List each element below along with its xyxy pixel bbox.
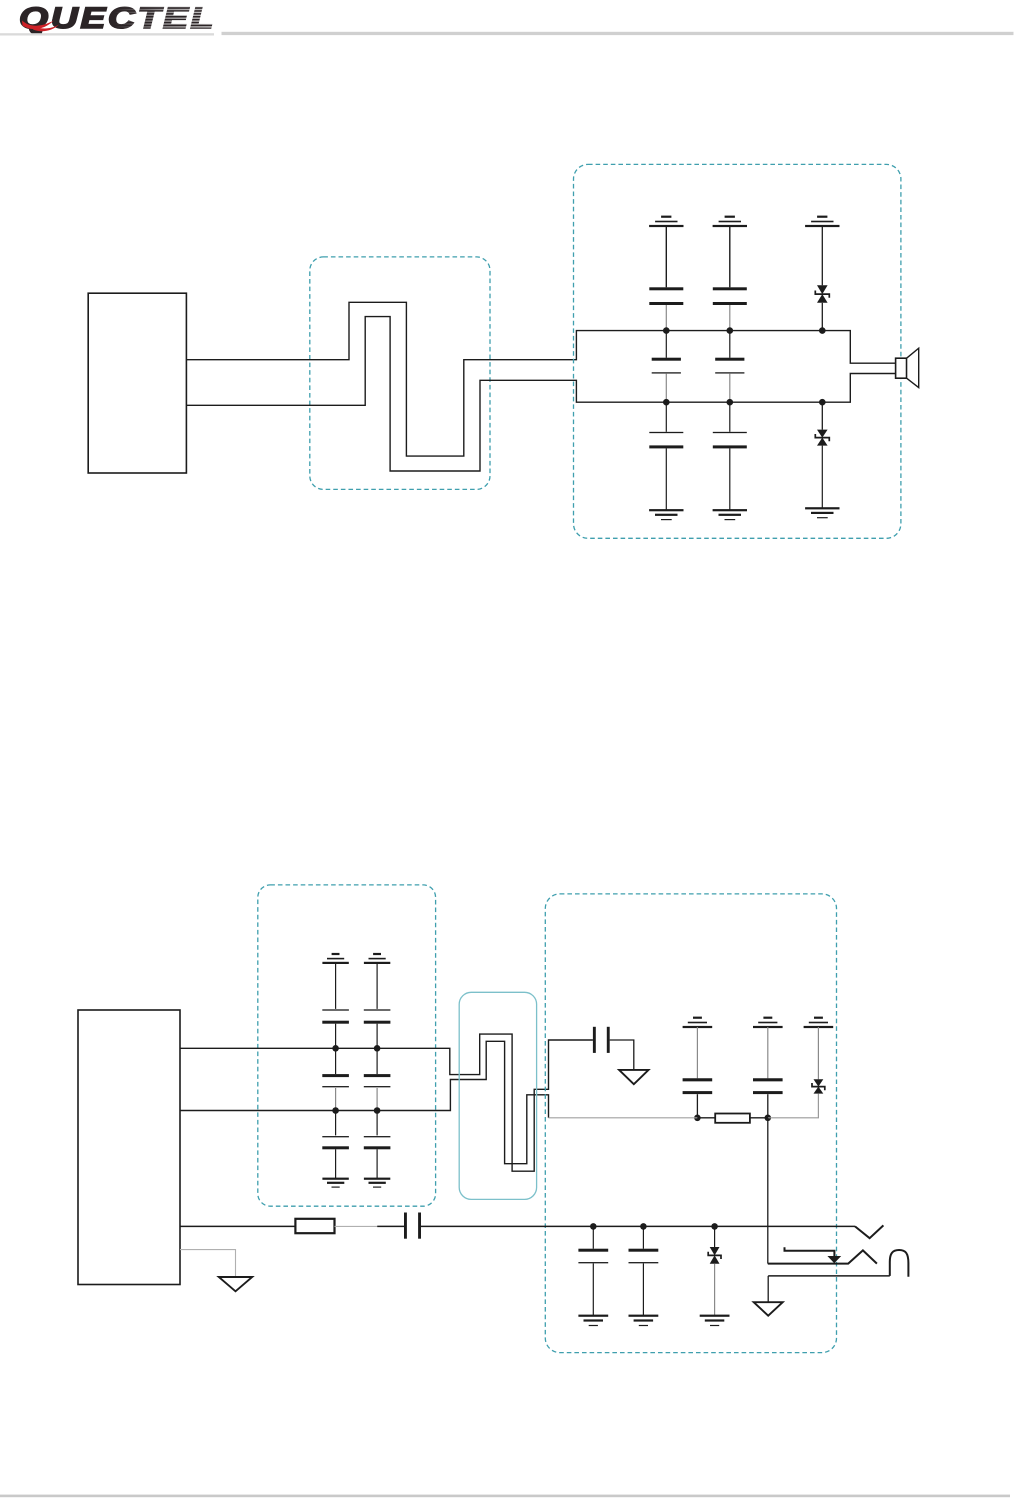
ground (bottom, bank column 3) — [322, 1178, 348, 1180]
jack NC switch contact with arrow — [785, 1247, 835, 1256]
wire resistor R2 to capacitor C8 (gray) — [335, 1225, 378, 1227]
ground (top, bank column 4) — [373, 953, 381, 955]
module box (schematic 1) — [88, 293, 186, 473]
jack plug barrel arc — [890, 1250, 909, 1277]
ground (bottom row, TVS column) — [700, 1315, 730, 1317]
wire TVS D4 to ground — [714, 1264, 716, 1316]
decoupling capacitor bank dashed box — [258, 885, 436, 1206]
ground (top, earphone column 6) — [693, 1017, 702, 1019]
wire module AGND (gray) — [180, 1250, 236, 1277]
speaker driver rectangle — [896, 358, 907, 378]
TVS diode D1 (top) — [817, 285, 828, 294]
wire SPK- net: module to meander to bottom rail to speaker — [186, 317, 895, 471]
wire EAR- net: module through meander — [180, 1041, 549, 1163]
wire to capacitor C8 — [377, 1225, 404, 1227]
header rule right segment — [222, 32, 1014, 35]
wire capacitor C3c to ground — [335, 1149, 337, 1178]
wire line to capacitor C10 — [642, 1226, 644, 1248]
wire line to capacitor C9 — [592, 1226, 594, 1248]
TVS diode D2 (bottom) — [821, 402, 823, 429]
jack top contact (bent spring) — [855, 1225, 883, 1238]
series capacitor C8 — [404, 1213, 407, 1239]
wire C5 to ground triangle — [610, 1040, 634, 1070]
capacitor C2c (line to AGND, bottom) — [729, 402, 731, 432]
speaker filter dashed box (schematic 1) — [574, 164, 901, 538]
capacitor C2a (line to AGND, top) — [713, 287, 747, 290]
differential-routing dashed box (schematic 1) — [310, 257, 490, 490]
ground triangle (jack sleeve) — [754, 1302, 783, 1316]
wire capacitor C3a to EAR+ wire — [335, 1024, 337, 1049]
junction node top rail TVS column — [819, 327, 826, 334]
TVS diode D4 — [710, 1247, 720, 1255]
logo red swoosh — [22, 21, 54, 30]
capacitor C7 (audio line to AGND) — [753, 1078, 783, 1081]
wire TVS D1 to top rail — [821, 303, 823, 331]
capacitor C1c (line to AGND, bottom) — [665, 402, 667, 432]
ground (bottom, bank column 4) — [364, 1178, 390, 1180]
jack tip contact line — [768, 1250, 877, 1263]
capacitor C3c (EAR- to AGND) — [335, 1111, 337, 1136]
wire capacitor C4a to EAR+ wire — [376, 1024, 378, 1049]
ground triangle (module AGND) — [219, 1277, 252, 1291]
wire capacitor C2a to top rail — [729, 305, 731, 331]
wire capacitor C9 to ground — [592, 1263, 594, 1315]
ground (top, TVS D3 column) — [814, 1017, 823, 1019]
capacitor C1b (differential, between rails) — [665, 331, 667, 358]
wire capacitor C10 to ground — [642, 1263, 644, 1315]
capacitor C6 (audio line to AGND) — [683, 1078, 713, 1081]
wire ground to TVS D3 — [817, 1027, 819, 1079]
Quectel logo — [19, 2, 226, 35]
wire capacitor C1c to ground — [665, 448, 667, 510]
junction node bottom rail TVS column — [819, 399, 826, 406]
footer rule — [0, 1495, 1010, 1498]
ground (bottom, TVS column) — [805, 507, 839, 509]
junction node audio line column 6 — [694, 1115, 701, 1122]
ground (bottom row, column 10) — [629, 1315, 659, 1317]
junction node audio line column 7 — [765, 1115, 772, 1122]
capacitor C3b (differential EAR+/EAR-) — [335, 1048, 337, 1074]
wire junction down to jack tip contact — [767, 1118, 769, 1264]
capacitor C4c (EAR- to AGND) — [376, 1111, 378, 1136]
junction node top rail column 2 — [727, 327, 734, 334]
wire TVS D3 to audio line — [768, 1094, 819, 1118]
differential-routing solid box (schematic 2) — [459, 992, 536, 1199]
wire ground to capacitor C6 — [696, 1027, 698, 1078]
wire resistor R1 to junction — [750, 1117, 768, 1119]
junction node top rail column 1 — [663, 327, 670, 334]
capacitor C4a (EAR+ to AGND) — [364, 1009, 391, 1010]
wire ground to TVS D1 — [821, 226, 823, 285]
wire ground to capacitor C3a — [335, 963, 337, 1009]
ground (bottom, column 1) — [649, 509, 683, 511]
earphone network dashed box — [545, 894, 836, 1353]
ground (top, earphone column 7) — [763, 1017, 772, 1019]
audio line left segment (gray) — [549, 1117, 698, 1119]
capacitor C4b (differential EAR+/EAR-) — [376, 1048, 378, 1074]
capacitor C9 (bottom line to AGND) — [578, 1249, 608, 1252]
wire SPK+ net: module to meander to top rail to speaker — [186, 302, 895, 456]
wire sleeve to ground triangle — [767, 1276, 769, 1302]
ground triangle (C5) — [619, 1070, 648, 1084]
wire TVS D2 to ground — [821, 446, 823, 509]
junction node EAR- bank column 3 — [332, 1107, 339, 1114]
capacitor C2b (differential, between rails) — [729, 331, 731, 358]
wire capacitor C7 to audio line — [767, 1094, 769, 1118]
junction node bottom line column 9 — [590, 1223, 597, 1230]
wire EAR+ net: module through meander — [180, 1034, 593, 1171]
junction node bottom rail column 1 — [663, 399, 670, 406]
capacitor C10 (bottom line to AGND) — [629, 1249, 659, 1252]
junction node EAR+ bank column 3 — [332, 1045, 339, 1052]
resistor R1 — [715, 1114, 750, 1123]
capacitor C3a (EAR+ to AGND) — [322, 1009, 349, 1010]
capacitor C1a (line to AGND, top) — [649, 287, 683, 290]
wire capacitor C1a to top rail — [665, 305, 667, 331]
wire capacitor C6 to audio line — [696, 1094, 698, 1118]
ground (top, column 1) — [661, 216, 671, 218]
ground (top, column 2) — [725, 216, 735, 218]
junction node bottom line TVS D4 — [711, 1223, 718, 1230]
resistor R2 — [295, 1219, 334, 1233]
ground (bottom, column 2) — [713, 509, 747, 511]
ground (bottom row, column 9) — [578, 1315, 608, 1317]
TVS diode D3 — [814, 1079, 824, 1086]
wire ground to capacitor C1a — [665, 226, 667, 287]
wire ground to capacitor C7 — [767, 1027, 769, 1078]
ground (top, TVS column) — [817, 216, 827, 218]
wire junction to resistor R1 — [697, 1117, 715, 1119]
wire ground to capacitor C2a — [729, 226, 731, 287]
wire module AOUT to resistor R2 — [180, 1225, 295, 1227]
wire ground to capacitor C4a — [376, 963, 378, 1009]
speaker cone — [907, 348, 919, 387]
series capacitor C5 on EAR+ — [593, 1027, 596, 1053]
junction node EAR- bank column 4 — [374, 1107, 381, 1114]
wire capacitor C2c to ground — [729, 448, 731, 510]
header rule left segment — [0, 33, 214, 35]
wire line to TVS D4 — [714, 1226, 716, 1247]
audio bottom line C8 to jack — [421, 1225, 855, 1227]
jack sleeve line — [768, 1275, 890, 1277]
junction node bottom rail column 2 — [727, 399, 734, 406]
wire capacitor C4c to ground — [376, 1149, 378, 1178]
junction node bottom line column 10 — [640, 1223, 647, 1230]
ground (top, bank column 3) — [332, 953, 340, 955]
junction node EAR+ bank column 4 — [374, 1045, 381, 1052]
module box (schematic 2) — [78, 1010, 180, 1285]
